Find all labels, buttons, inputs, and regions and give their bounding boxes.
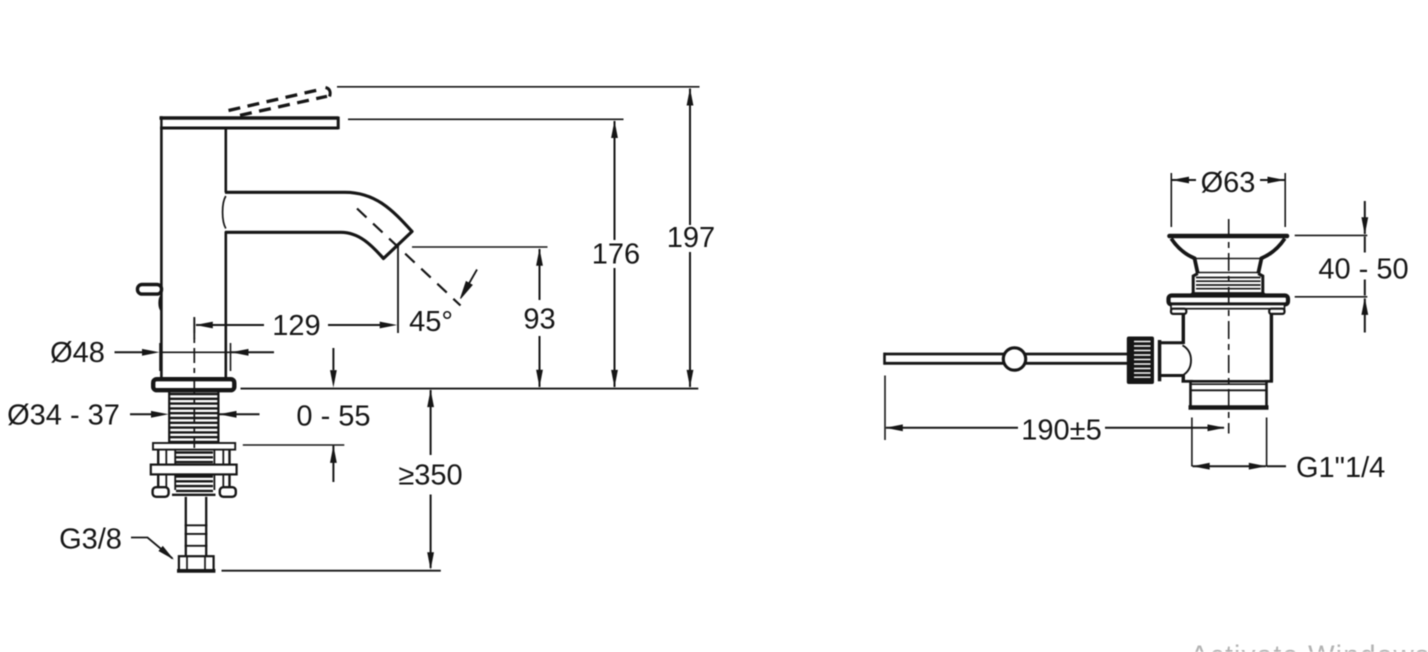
svg-text:176: 176 <box>592 238 640 270</box>
svg-text:Ø48: Ø48 <box>50 337 105 369</box>
svg-text:G1"1/4: G1"1/4 <box>1296 452 1385 484</box>
svg-text:190±5: 190±5 <box>1021 414 1101 446</box>
svg-text:93: 93 <box>523 304 555 336</box>
svg-text:Ø34 - 37: Ø34 - 37 <box>7 399 120 431</box>
svg-text:G3/8: G3/8 <box>59 523 122 555</box>
svg-text:197: 197 <box>667 222 715 254</box>
svg-text:0 - 55: 0 - 55 <box>296 401 370 433</box>
svg-text:45°: 45° <box>409 306 453 338</box>
svg-text:Activate Windows: Activate Windows <box>1190 640 1428 652</box>
svg-text:Ø63: Ø63 <box>1201 167 1256 199</box>
svg-text:40 - 50: 40 - 50 <box>1318 253 1408 285</box>
svg-text:129: 129 <box>272 310 320 342</box>
svg-text:≥350: ≥350 <box>398 460 462 492</box>
